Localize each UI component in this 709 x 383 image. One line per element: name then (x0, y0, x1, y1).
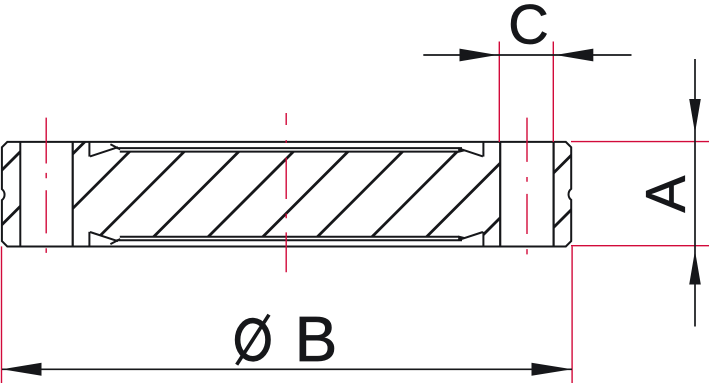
dimension C line (423, 54, 631, 56)
bottom sealing face line (inner) (120, 236, 459, 238)
dimension B left extension line (1, 246, 3, 383)
dimension B line (2, 368, 572, 370)
dimension C left arrowhead (460, 49, 498, 62)
dimension B right extension line (571, 246, 573, 383)
top-right knife edge tip (458, 148, 466, 153)
dimension A top extension line (571, 141, 709, 143)
right rim inner edge line (552, 142, 554, 246)
left bolt hole edge line (72, 142, 74, 246)
dimension A bottom extension line (571, 245, 709, 247)
bottom sealing face line (outer) (117, 239, 463, 241)
dimension B left arrowhead (2, 363, 42, 376)
top-left knife edge (89, 141, 120, 157)
section hatching, flange body (0, 130, 709, 260)
top-right knife edge (458, 141, 483, 157)
dimension B right arrowhead (532, 363, 573, 376)
left rim inner edge line (19, 142, 21, 246)
dimension A top arrowhead (689, 99, 701, 133)
dimension A line (694, 59, 696, 327)
bottom-left knife edge (89, 232, 120, 247)
svg-text:B: B (295, 303, 338, 375)
bottom-right knife edge tip (458, 236, 466, 241)
svg-text:A: A (634, 176, 696, 213)
dimension C left extension line (498, 42, 500, 143)
flange outline with corner chamfers and OD grooves (2, 142, 571, 247)
right bolt hole center line (526, 118, 528, 255)
top sealing face line (outer) (117, 147, 463, 149)
flange axis center line (285, 113, 287, 272)
dimension C right arrowhead (556, 49, 594, 62)
svg-text:C: C (508, 0, 548, 56)
left bolt hole center line (45, 118, 47, 253)
section hatching, right rim (467, 130, 652, 260)
bottom-right knife edge (458, 232, 483, 247)
dimension C right extension line (552, 42, 554, 143)
right bolt hole edge line (499, 142, 501, 246)
section hatching, left rim (0, 130, 97, 260)
top sealing face line (inner) (120, 151, 459, 153)
diameter symbol of label B (237, 315, 269, 365)
dimension A bottom arrowhead (689, 251, 701, 285)
